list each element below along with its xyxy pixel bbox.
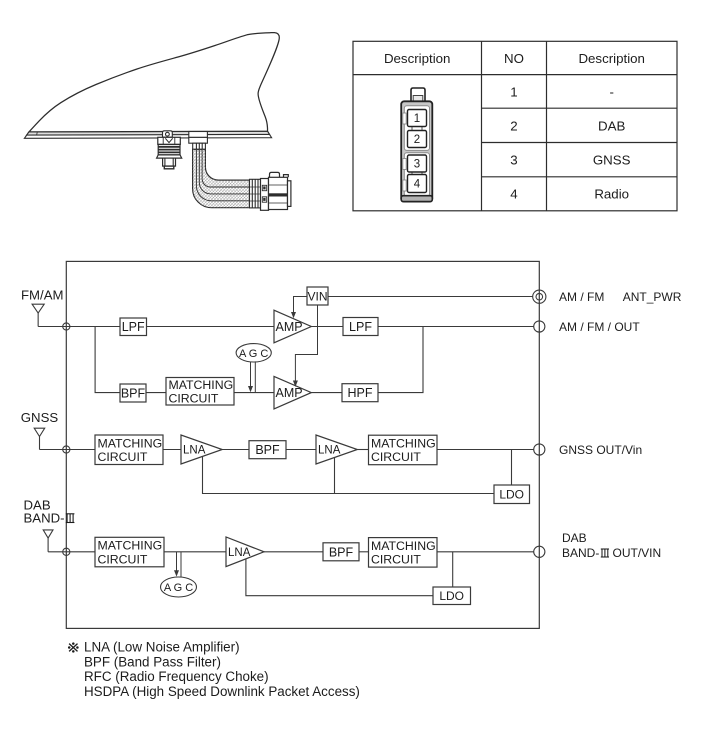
- wire down to LDO (DAB): [452, 552, 454, 587]
- svg-text:4: 4: [414, 179, 421, 191]
- svg-text:MATCHING: MATCHING: [371, 437, 436, 451]
- wire down to LDO (GNSS): [511, 450, 513, 486]
- svg-text:BPF: BPF: [121, 387, 146, 401]
- cable connector plug: [261, 172, 291, 210]
- filter LPF (AM/FM input): [120, 318, 147, 336]
- svg-text:AMP: AMP: [276, 386, 303, 400]
- svg-text:3: 3: [510, 152, 517, 167]
- wire AMP U2 to HPF: [311, 392, 342, 394]
- connector pinout table grid: [353, 41, 677, 211]
- filter HPF: [342, 384, 378, 402]
- wire AMP U1 to LPF2: [311, 326, 343, 328]
- matching circuit (DAB output): [369, 538, 438, 568]
- matching circuit (GNSS input): [95, 435, 163, 465]
- amplifier AMP U2: [274, 376, 311, 409]
- node B (GNSS input junction): [63, 446, 70, 453]
- port AM/FM OUT: [534, 321, 545, 332]
- svg-text:GNSS: GNSS: [21, 410, 59, 425]
- wire node A to LPF: [66, 326, 120, 328]
- svg-text:GNSS OUT/Vin: GNSS OUT/Vin: [559, 443, 642, 457]
- svg-text:BPF (Band Pass Filter): BPF (Band Pass Filter): [84, 654, 221, 669]
- wire HPF joining AM/FM OUT line: [378, 327, 423, 393]
- label DAB BAND-III OUT/VIN: [562, 531, 661, 560]
- wire VIN to AMP U1 with arrow: [294, 297, 308, 313]
- wire LPF to AMP U1: [147, 326, 275, 328]
- wire BPF to matching circuit: [146, 392, 166, 394]
- wire BPF to matching circuit: [359, 551, 369, 553]
- svg-text:MATCHING: MATCHING: [371, 539, 436, 553]
- wire LPF2 to AM/FM OUT port: [378, 326, 534, 328]
- node C (DAB input junction): [63, 548, 70, 555]
- filter LPF (AM/FM output): [343, 318, 378, 336]
- wire LNA1 to BPF: [222, 449, 249, 451]
- GNSS antenna symbol: [34, 428, 45, 449]
- svg-text:CIRCUIT: CIRCUIT: [169, 392, 219, 406]
- matching circuit (GNSS output): [369, 435, 438, 465]
- wire matching circuit to LNA1: [163, 449, 181, 451]
- amplifier LNA2: [316, 435, 357, 464]
- LDO rail branch to LNA2: [334, 458, 336, 494]
- svg-text:HSDPA (High Speed Downlink Pac: HSDPA (High Speed Downlink Packet Access…: [84, 684, 360, 699]
- AGC control block (DAB): [161, 577, 197, 597]
- wire VIN bottom to AMP U2 with arrow: [295, 305, 317, 381]
- DAB BAND-III label: [24, 511, 75, 526]
- svg-text:LDO: LDO: [439, 589, 464, 603]
- svg-text:1: 1: [510, 84, 517, 99]
- wire DAB antenna to node C: [48, 551, 66, 553]
- filter BPF (AM/FM branch): [120, 384, 146, 402]
- svg-text:AM / FM / OUT: AM / FM / OUT: [559, 320, 640, 334]
- svg-text:ANT_PWR: ANT_PWR: [623, 290, 682, 304]
- amplifier AMP U1: [274, 310, 311, 343]
- svg-text:2: 2: [510, 118, 517, 133]
- svg-text:BPF: BPF: [255, 443, 280, 457]
- AGC control arrow to AMP U2 wire: [251, 361, 256, 392]
- DAB antenna symbol: [43, 530, 53, 552]
- wire branch down to BPF row: [95, 327, 120, 393]
- wire matching circuit to DAB port: [437, 551, 534, 553]
- port GNSS OUT/Vin: [534, 444, 545, 455]
- svg-text:LDO: LDO: [499, 488, 524, 502]
- svg-text:BAND-: BAND-: [24, 511, 65, 526]
- wire BPF to LNA2: [286, 449, 316, 451]
- svg-text:4: 4: [510, 186, 517, 201]
- svg-text:OUT/VIN: OUT/VIN: [613, 546, 662, 560]
- amplifier LNA1: [181, 435, 222, 464]
- table pin number column: [510, 84, 517, 201]
- svg-text:LNA: LNA: [183, 445, 206, 457]
- svg-text:-: -: [609, 84, 613, 99]
- svg-text:DAB: DAB: [598, 118, 625, 133]
- port DAB BAND-III OUT/VIN: [534, 546, 545, 557]
- svg-text:BAND-: BAND-: [562, 546, 599, 560]
- svg-text:GNSS: GNSS: [593, 152, 631, 167]
- wire matching circuit to GNSS port: [437, 449, 534, 451]
- LDO supply rail to LNA3: [246, 559, 433, 596]
- node A (FM/AM input junction): [63, 323, 70, 330]
- wire GNSS antenna to node B: [40, 449, 67, 451]
- antenna mounting stud nut: [163, 131, 173, 137]
- svg-text:1: 1: [414, 113, 420, 125]
- svg-text:Radio: Radio: [594, 186, 629, 201]
- FM/AM antenna symbol: [32, 304, 44, 326]
- wire LNA3 to BPF: [264, 551, 323, 553]
- LDO supply rail to LNA1 and LNA2: [203, 456, 495, 493]
- wire LNA2 to matching circuit: [357, 449, 368, 451]
- svg-text:MATCHING: MATCHING: [169, 378, 234, 392]
- svg-text:CIRCUIT: CIRCUIT: [371, 553, 421, 567]
- wire matching circuit to AMP U2: [234, 392, 275, 394]
- table description column: [593, 84, 631, 201]
- svg-text:AMP: AMP: [276, 320, 303, 334]
- svg-text:FM/AM: FM/AM: [21, 288, 64, 303]
- label AM/FM ANT_PWR: [559, 290, 682, 304]
- cable smooth ring section: [250, 179, 261, 208]
- svg-text:LNA: LNA: [228, 547, 251, 559]
- svg-text:3: 3: [414, 159, 420, 171]
- cable gland fitting: [189, 132, 208, 150]
- svg-text:BPF: BPF: [329, 545, 354, 559]
- antenna mounting stud (threaded bolt): [157, 137, 182, 169]
- svg-text:A G C: A G C: [239, 348, 268, 360]
- svg-text:NO: NO: [504, 51, 524, 66]
- wire node C to matching circuit: [66, 551, 95, 553]
- wire FM/AM antenna to node A: [38, 326, 66, 328]
- wire node B to matching circuit: [66, 449, 95, 451]
- wire VIN to ANT_PWR port: [328, 296, 533, 298]
- regulator LDO (GNSS): [494, 485, 530, 504]
- svg-text:Description: Description: [384, 51, 451, 66]
- wire matching circuit to LNA3: [164, 551, 226, 553]
- svg-text:AM / FM: AM / FM: [559, 290, 604, 304]
- svg-text:LNA: LNA: [318, 445, 341, 457]
- antenna base plate: [24, 131, 271, 138]
- svg-text:CIRCUIT: CIRCUIT: [371, 450, 421, 464]
- table header row: [384, 51, 645, 66]
- svg-text:RFC (Radio Frequency Choke): RFC (Radio Frequency Choke): [84, 669, 269, 684]
- svg-text:Description: Description: [578, 51, 645, 66]
- svg-text:2: 2: [414, 134, 420, 146]
- regulator LDO (DAB): [433, 587, 471, 605]
- matching circuit (DAB input): [95, 537, 164, 567]
- svg-text:CIRCUIT: CIRCUIT: [98, 552, 148, 566]
- svg-text:VIN: VIN: [307, 290, 327, 304]
- svg-text:MATCHING: MATCHING: [98, 436, 163, 450]
- footnote reference mark: [68, 642, 79, 652]
- svg-text:LNA (Low Noise Amplifier): LNA (Low Noise Amplifier): [84, 640, 240, 655]
- svg-text:LPF: LPF: [349, 320, 372, 334]
- svg-text:DAB: DAB: [562, 531, 587, 545]
- block diagram outer box: [66, 261, 539, 628]
- VIN box: [307, 287, 328, 305]
- matching circuit (AM/FM branch): [166, 378, 234, 406]
- svg-text:HPF: HPF: [348, 386, 373, 400]
- amplifier LNA3: [226, 537, 264, 567]
- port AM/FM ANT_PWR (double circle): [533, 290, 546, 303]
- corrugated cable elbow conduit: [193, 149, 250, 207]
- filter BPF (DAB): [323, 543, 359, 561]
- shark fin antenna body: [29, 33, 279, 132]
- filter BPF (GNSS): [249, 441, 286, 459]
- svg-text:LPF: LPF: [122, 320, 145, 334]
- AGC control block (AM/FM): [236, 344, 271, 362]
- svg-text:MATCHING: MATCHING: [98, 539, 163, 553]
- svg-text:A G C: A G C: [164, 582, 193, 594]
- AGC control arrow (DAB): [177, 552, 182, 577]
- svg-text:CIRCUIT: CIRCUIT: [98, 450, 148, 464]
- connector icon in table: [401, 88, 432, 202]
